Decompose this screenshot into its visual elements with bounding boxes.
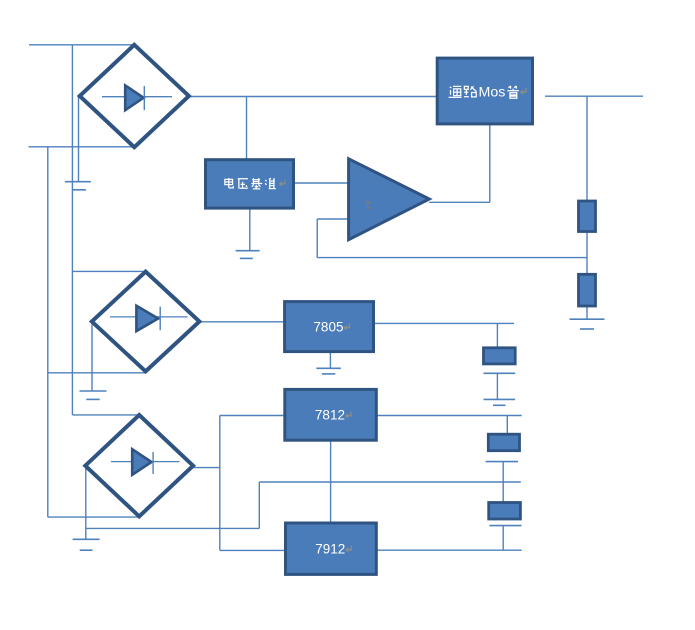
- ground G6 (7805): [316, 368, 341, 374]
- bridge rectifier BR3 outline: [85, 415, 193, 516]
- ground G7 (bridge 3): [73, 539, 100, 550]
- block Q1 pass MOSFET 通路Mos管: [437, 58, 532, 124]
- wire 7812 to 7912 vertical: [330, 440, 332, 523]
- wire bridge2 left vertex down: [91, 322, 93, 391]
- wire output up to MOS block: [489, 124, 491, 202]
- svg-text:7805: 7805: [313, 320, 343, 335]
- capacitor C3 bottom plate: [490, 525, 522, 527]
- wire bridge3 left vertex down: [85, 465, 87, 539]
- ground G2 (voltage reference): [236, 251, 260, 259]
- capacitor C1 bottom plate: [484, 372, 516, 374]
- wire second input line: [29, 146, 135, 148]
- op-amp U1: [349, 159, 430, 240]
- wire MOS output line: [545, 95, 643, 97]
- capacitor C3 top plate: [489, 503, 521, 520]
- svg-text:7912: 7912: [315, 542, 345, 557]
- svg-text:7812: 7812: [315, 408, 345, 423]
- wire mid rail: [259, 481, 521, 483]
- wire op-amp - input: [317, 218, 348, 220]
- capacitor C1 top plate: [484, 348, 516, 364]
- svg-text:Mos: Mos: [479, 84, 506, 100]
- wire bridge1 output to MOS block: [189, 96, 437, 98]
- ground G5 (C1): [484, 399, 516, 405]
- wire left rail A (top rail down to lower bridge): [71, 45, 73, 415]
- wire drop to C2: [506, 416, 508, 435]
- resistor R1: [579, 201, 596, 232]
- diode inside BR3: [111, 449, 180, 475]
- wire rail B branch to bridge 2 bottom: [48, 372, 146, 374]
- wire 7805 to ground: [329, 352, 331, 369]
- wire bridge2 output to 7805: [199, 321, 284, 323]
- wire 7805 output: [374, 322, 515, 324]
- wire rail A branch to bridge 2 top: [72, 270, 146, 272]
- block U5 regulator 7912: [286, 523, 377, 574]
- wire bridge1 left vertex down: [78, 97, 80, 182]
- wire down to R1: [586, 96, 588, 201]
- wire R2 to ground: [586, 306, 588, 319]
- wire feedback vertical: [316, 219, 318, 258]
- wire 7912 input: [220, 549, 286, 551]
- ground G3 (divider): [570, 319, 605, 329]
- wire C2 to mid rail: [502, 462, 504, 482]
- wire 7912 output: [376, 549, 521, 551]
- wire left rail B: [47, 147, 49, 517]
- wire op-amp output: [429, 201, 490, 203]
- wire 7812 output: [376, 415, 521, 417]
- wire drop to voltage reference: [246, 97, 248, 161]
- wire bridge3 output: [193, 467, 220, 469]
- diode inside BR2: [110, 306, 188, 331]
- wire 7812 input: [220, 415, 285, 417]
- wire rail A branch to bridge 3 top: [72, 414, 140, 416]
- ground G1: [65, 182, 91, 190]
- block U2 voltage reference 电压基准: [206, 160, 294, 208]
- ground G4 (bridge 2): [80, 391, 107, 399]
- wire mid rail to C3: [502, 482, 504, 503]
- wire voltage reference to ground: [249, 209, 251, 251]
- resistor R2: [579, 274, 596, 306]
- capacitor C2 top plate: [488, 434, 519, 451]
- bridge rectifier BR1 outline: [80, 45, 189, 147]
- wire left connector 7812/7912: [219, 416, 221, 551]
- bridge rectifier BR2 outline: [92, 272, 200, 372]
- wire C1 to ground: [496, 373, 498, 399]
- wire voltage reference to op-amp +: [294, 182, 349, 184]
- wire feedback to divider: [317, 257, 587, 259]
- wire rail B to bridge 3 bottom: [48, 516, 141, 518]
- op-amp anchor mark: [365, 201, 371, 208]
- block U3 regulator 7805: [285, 302, 374, 352]
- wire Z vertical up to mid rail: [258, 482, 260, 528]
- wire R1 to R2: [586, 232, 588, 275]
- wire drop to C1: [496, 323, 498, 347]
- diode inside BR1: [102, 85, 172, 110]
- wire C3 to 7912 output line: [502, 526, 504, 551]
- wire top input rail: [29, 44, 134, 46]
- capacitor C2 bottom plate: [486, 461, 518, 463]
- block U4 regulator 7812: [285, 389, 377, 440]
- wire bridge3 ground Z horizontal: [86, 527, 259, 529]
